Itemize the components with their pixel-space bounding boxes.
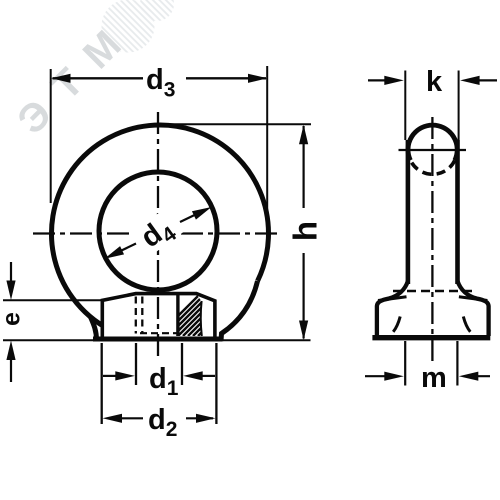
e arrow down [6, 281, 15, 301]
watermark emblem (hatched logo) [102, 0, 175, 53]
h dimension line upper [303, 126, 305, 208]
d2 arrow left pointing left [103, 414, 123, 423]
section hatching [158, 294, 240, 336]
m arrow left pointing right [365, 375, 388, 377]
skirt left side view [377, 281, 408, 336]
side view vertical centerline [431, 117, 433, 364]
h arrow up [299, 125, 308, 145]
eye circle solid arc [408, 125, 457, 160]
e dimension line lower [10, 359, 12, 382]
e arrow up [6, 341, 15, 361]
intersection hook right [463, 317, 470, 332]
h arrow down [299, 321, 308, 341]
m extension line right [456, 341, 458, 386]
skirt right side view [458, 281, 489, 336]
vertical centerline left view [157, 112, 159, 356]
d1 extension line left [135, 343, 137, 385]
nut body outline [102, 294, 215, 341]
m arrow right pointing left [473, 375, 490, 377]
k arrow right pointing left [476, 79, 497, 81]
svg-text:e: e [0, 312, 26, 326]
side view horizontal centerline [399, 149, 467, 151]
outer ring circle [51, 125, 268, 342]
hidden hole bottom dashed [140, 332, 179, 334]
d2 extension line right [215, 343, 217, 424]
d2 extension line left [101, 343, 103, 424]
d1 extension line right [181, 343, 183, 385]
shank edge right [455, 140, 460, 284]
hidden thread line left outer [135, 297, 137, 334]
m extension line left [404, 341, 406, 386]
shank edge left [406, 140, 411, 284]
skirt top face left [378, 297, 407, 301]
h top extension line [160, 123, 311, 125]
eye circle hidden arc dashed [410, 160, 454, 174]
d3 extension line left [50, 69, 52, 203]
k extension line left [404, 71, 406, 141]
dimension d3 line left part [53, 77, 144, 79]
horizontal centerline left view [33, 232, 280, 234]
left skirt curve [91, 317, 97, 340]
side view base line [372, 335, 490, 340]
intersection hook left [393, 317, 400, 332]
e dimension line upper [10, 262, 12, 281]
svg-text:k: k [426, 66, 443, 98]
hidden thread line left inner [141, 297, 143, 334]
k extension line right [458, 71, 460, 141]
d1 arrow right pointing left [201, 375, 215, 377]
k arrow left pointing right [368, 79, 388, 81]
d2 arrow right pointing right [186, 417, 213, 419]
inner ring circle [99, 172, 217, 290]
h dimension line lower [303, 253, 305, 339]
right skirt curve [221, 281, 258, 341]
d1 arrow left pointing right [103, 375, 118, 377]
svg-text:m: m [421, 362, 447, 394]
d3 arrow left [51, 74, 71, 83]
d3 extension line right [266, 66, 268, 212]
hidden nut top dashed [393, 290, 474, 293]
dimension d3 line right part [186, 77, 266, 79]
label mask d4 [131, 206, 186, 257]
section hole edge line [176, 295, 179, 337]
d3 arrow right [248, 74, 268, 83]
chamfer cone line right [201, 301, 202, 336]
nut body fill [102, 294, 215, 346]
svg-text:h: h [287, 221, 324, 241]
d4 arrow lower left [110, 244, 136, 257]
base line thin extensions [3, 339, 311, 341]
skirt top face right [459, 297, 488, 301]
d4 arrow upper right [180, 210, 206, 223]
nut top extension line for e [3, 299, 102, 301]
base line thick [93, 337, 223, 342]
